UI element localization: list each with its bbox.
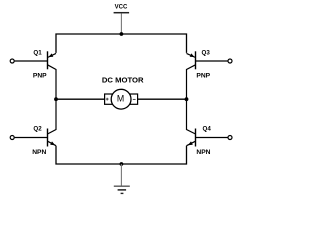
motor minus sign <box>133 98 136 100</box>
transistor Q4 base bar <box>195 129 197 147</box>
terminal circle Q3 <box>228 59 232 63</box>
wire Q3 collector <box>187 65 196 99</box>
svg-text:Q2: Q2 <box>33 126 42 133</box>
arrow Q4 NPN <box>188 141 193 145</box>
top rail wire <box>56 34 187 53</box>
svg-text:DC MOTOR: DC MOTOR <box>102 75 144 84</box>
node ground junction <box>120 162 124 166</box>
wire Q4 collector <box>187 99 196 134</box>
wire Q2 emitter <box>48 141 57 146</box>
bottom rail wire <box>56 146 187 164</box>
node right collector junction <box>185 97 189 101</box>
motor right brush rectangle <box>130 94 138 104</box>
wire Q4 emitter <box>187 141 196 146</box>
transistor Q1 base bar <box>47 51 49 69</box>
svg-text:M: M <box>117 93 124 103</box>
terminal circle Q1 <box>10 59 14 63</box>
svg-text:PNP: PNP <box>196 73 210 80</box>
wire Q3 base <box>196 60 229 62</box>
arrow Q2 NPN <box>50 141 55 145</box>
svg-text:Q3: Q3 <box>202 49 211 56</box>
transistor Q2 base bar <box>47 129 49 147</box>
wire motor rail right <box>138 98 187 100</box>
svg-text:PNP: PNP <box>33 73 47 80</box>
wire motor rail left <box>56 98 105 100</box>
node left collector junction <box>54 97 58 101</box>
wire Q1 collector <box>48 65 57 99</box>
wire Q1 base <box>15 60 48 62</box>
ground bar 3 <box>121 192 124 194</box>
wire Q4 base <box>196 137 229 139</box>
motor plus sign <box>106 98 109 101</box>
svg-text:VCC: VCC <box>115 5 128 11</box>
ground stem wire <box>120 164 122 186</box>
ground bar 2 <box>118 189 127 191</box>
wire Q1 emitter <box>48 53 57 57</box>
wire Q3 emitter <box>187 53 196 57</box>
wire Q2 base <box>15 137 48 139</box>
terminal circle Q2 <box>10 136 14 140</box>
arrow Q3 PNP <box>190 53 195 57</box>
VCC stem wire <box>120 13 122 34</box>
svg-text:Q1: Q1 <box>33 49 42 56</box>
motor body circle M1 <box>111 89 131 109</box>
svg-text:Q4: Q4 <box>203 126 212 133</box>
svg-text:NPN: NPN <box>32 149 46 156</box>
ground bar 1 <box>114 185 130 187</box>
arrow Q1 PNP <box>48 53 53 57</box>
svg-text:NPN: NPN <box>196 149 210 156</box>
node VCC junction <box>120 32 124 36</box>
transistor Q3 base bar <box>195 51 197 69</box>
VCC power symbol bar <box>114 12 130 14</box>
terminal circle Q4 <box>228 136 232 140</box>
motor left brush rectangle <box>105 94 113 104</box>
wire Q2 collector <box>48 99 57 134</box>
